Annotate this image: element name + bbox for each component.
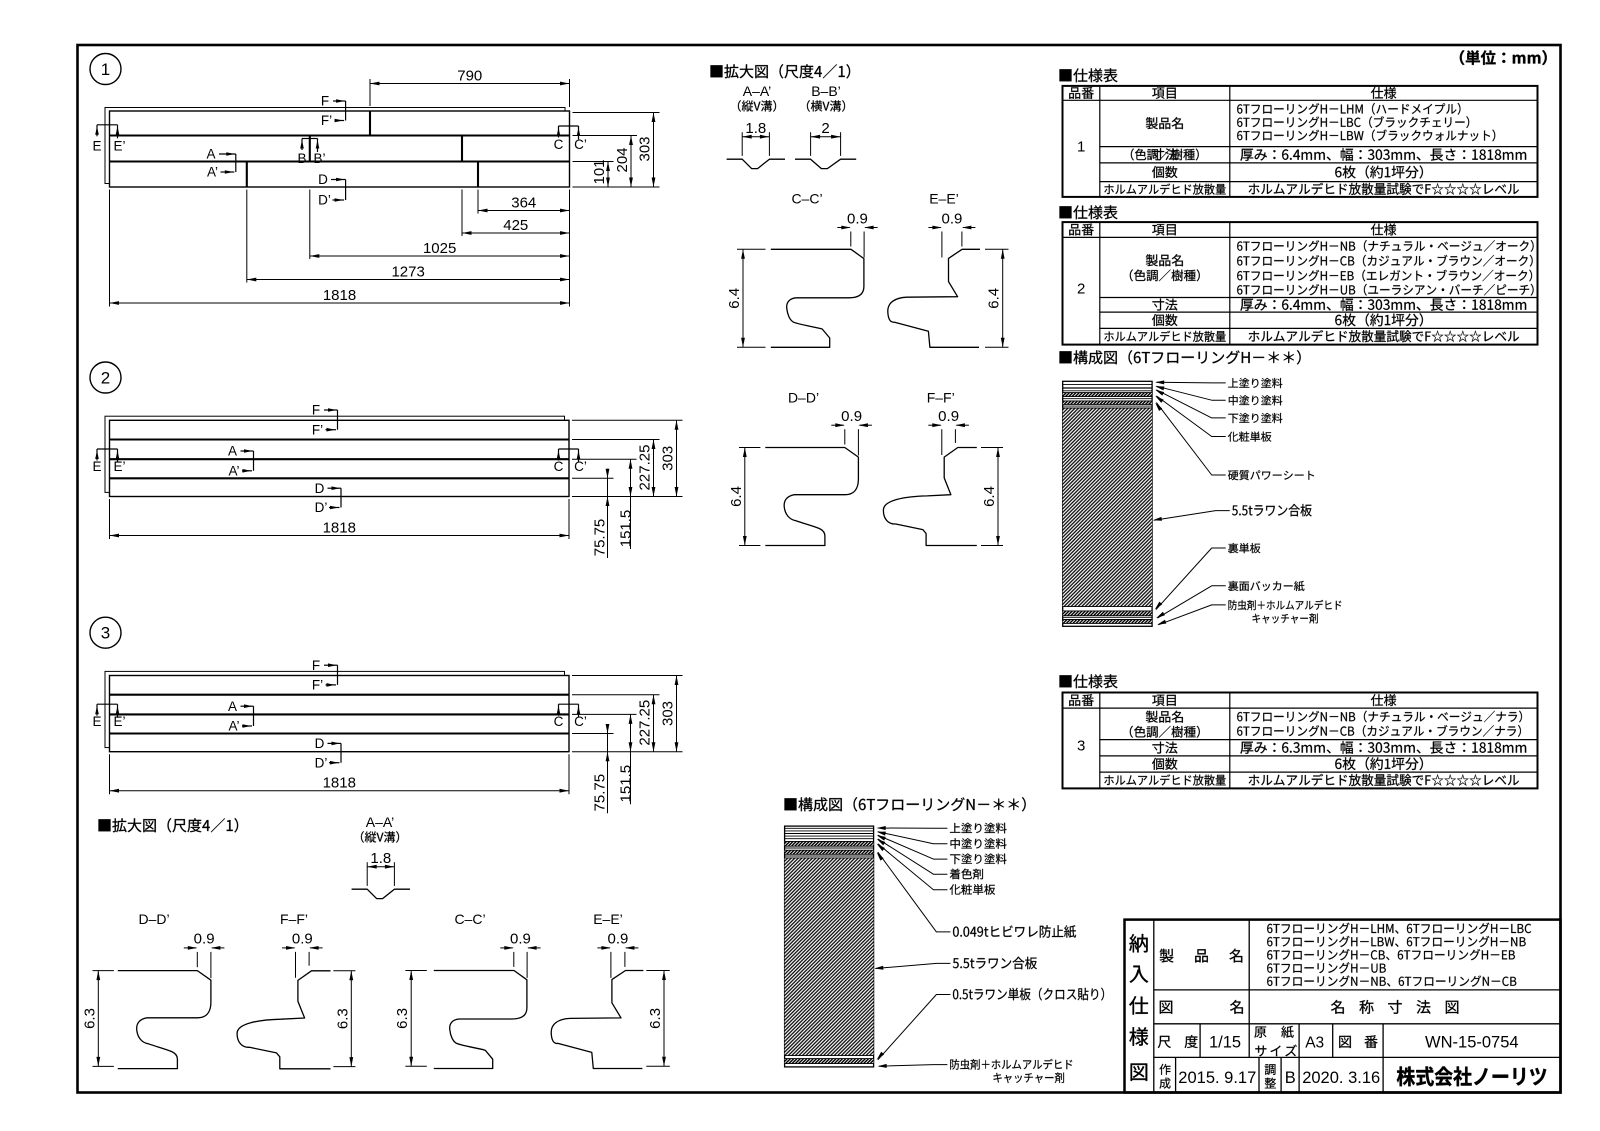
view number circle 2: [90, 362, 121, 393]
svg-text:1818: 1818: [323, 519, 356, 536]
spec table 1 grid: [1063, 86, 1538, 197]
svg-text:C’: C’: [574, 459, 587, 474]
composition N plywood hatch: [785, 858, 874, 1056]
svg-text:0.9: 0.9: [938, 408, 959, 425]
profile section D-D mid: [765, 448, 858, 546]
svg-text:E–E’: E–E’: [593, 911, 623, 927]
title block drawing title: [1331, 1000, 1458, 1014]
svg-text:1025: 1025: [423, 240, 456, 257]
svg-text:6.4: 6.4: [726, 288, 743, 309]
panel 2 row line 2: [110, 458, 570, 460]
svg-text:F’: F’: [321, 113, 332, 128]
svg-text:1: 1: [1077, 138, 1085, 155]
composition H insecticide band: [1063, 620, 1152, 624]
composition N decorative veneer band: [785, 841, 874, 846]
panel 3 row line 1: [110, 694, 570, 696]
panel 2 backing sheet outline: [105, 416, 565, 492]
dim 6.4 of E-E top: [985, 248, 1009, 250]
dim 1818 view2: [110, 535, 570, 537]
title block bottom row cells: [1175, 1057, 1177, 1092]
dim 227.25 view3: [653, 695, 655, 752]
svg-text:2020. 3.16: 2020. 3.16: [1302, 1069, 1380, 1087]
section marker E-E view3: [97, 703, 118, 705]
profile section F-F bottom: [237, 971, 330, 1069]
section marker B-B view1: [302, 138, 318, 140]
spec table 3 grid: [1063, 693, 1538, 789]
svg-text:A’: A’: [207, 165, 218, 180]
svg-text:C–C’: C–C’: [454, 911, 485, 927]
dim 6.3 of E-E bottom: [646, 970, 670, 972]
dim 6.4 of D-D mid: [739, 447, 760, 449]
composition H back veneer band: [1063, 611, 1152, 616]
panel 1 joint top row: [369, 111, 371, 136]
spec table 3 dimensions row: [1152, 742, 1177, 754]
panel 1 outline: [110, 111, 570, 187]
dim 1818 extensions view2: [109, 499, 111, 539]
svg-text:6.4: 6.4: [728, 486, 745, 507]
panel 3 outline: [110, 676, 570, 752]
dim 425: [462, 232, 570, 234]
dim 303 view2: [676, 420, 678, 496]
dim 303 extensions view1: [573, 112, 660, 114]
title block product name label: [1160, 949, 1243, 963]
title block outer frame: [1125, 920, 1561, 1093]
svg-text:D’: D’: [315, 500, 328, 515]
title block label column line: [1248, 920, 1250, 1058]
profile section C-C bottom: [434, 971, 527, 1069]
top enlarged view title: [711, 64, 851, 78]
svg-text:E’: E’: [113, 459, 125, 474]
label N colorant: [950, 869, 983, 880]
svg-text:151.5: 151.5: [618, 765, 635, 803]
dim 75.75 view2: [607, 469, 609, 558]
label N bottom coat: [950, 854, 1006, 865]
svg-text:B: B: [1285, 1069, 1296, 1087]
label N lauan plywood 5.5t: [953, 957, 1037, 969]
svg-text:227.25: 227.25: [637, 445, 654, 491]
svg-text:C: C: [554, 459, 564, 474]
composition N line below veneer: [785, 847, 874, 849]
panel 1 backing sheet outline: [105, 108, 565, 184]
svg-text:D: D: [315, 736, 325, 751]
dim 6.4 of F-F mid: [981, 447, 1003, 449]
profile section E-E bottom: [551, 971, 643, 1069]
label H middle coat: [1229, 395, 1283, 405]
composition diagram H title: [1060, 350, 1301, 364]
svg-text:6.4: 6.4: [981, 486, 998, 507]
spec table 3 formaldehyde row: [1104, 774, 1225, 785]
panel 1 row line 2: [110, 160, 570, 162]
svg-text:C’: C’: [574, 714, 587, 729]
label N crack prevention paper: [953, 925, 1076, 937]
svg-text:C–C’: C–C’: [791, 191, 822, 207]
view number circle 1: [90, 54, 121, 85]
dim 1025 extension: [309, 190, 311, 260]
spec table 1 product names: [1237, 103, 1460, 115]
company logo Noritz: [1397, 1066, 1546, 1086]
spec table 3 quantity row: [1152, 758, 1177, 770]
panel 3 row line 2: [110, 713, 570, 715]
svg-text:WN-15-0754: WN-15-0754: [1425, 1034, 1519, 1052]
label H top coat: [1228, 378, 1282, 388]
dim 227.25 view2: [653, 440, 655, 497]
dim 303 view1: [653, 113, 655, 188]
composition N lauan veneer band: [785, 1059, 874, 1064]
label H backer paper: [1228, 581, 1304, 591]
svg-text:D–D’: D–D’: [788, 390, 819, 406]
svg-text:1: 1: [101, 60, 110, 79]
dim 75.75 extension view3: [572, 733, 614, 735]
composition N stack body: [785, 826, 874, 1067]
spec table 2 title: [1060, 205, 1118, 219]
svg-text:1.8: 1.8: [745, 120, 766, 137]
svg-text:A’: A’: [228, 719, 239, 734]
panel 2 row line 1: [110, 438, 570, 440]
svg-text:303: 303: [660, 701, 677, 726]
svg-text:E: E: [92, 714, 101, 729]
svg-text:F: F: [312, 658, 320, 673]
view number circle 3: [90, 617, 121, 648]
svg-text:3: 3: [101, 624, 110, 643]
dim 303 extensions view3: [572, 675, 683, 677]
svg-text:E’: E’: [113, 139, 125, 154]
svg-text:D’: D’: [315, 755, 328, 770]
svg-text:E’: E’: [113, 714, 125, 729]
svg-text:B–B’: B–B’: [811, 83, 841, 99]
svg-text:A’: A’: [228, 463, 239, 478]
spec table 1 formaldehyde row: [1104, 184, 1225, 195]
dim 790: [370, 83, 570, 85]
dim 151.5 extension view3: [572, 713, 637, 715]
label H hard power sheet: [1228, 470, 1314, 480]
panel 1 joint mid row b: [461, 136, 463, 162]
svg-text:D’: D’: [318, 193, 331, 208]
dim 204: [630, 136, 632, 188]
svg-text:0.9: 0.9: [941, 210, 962, 227]
dim 1273: [247, 279, 570, 281]
svg-text:0.9: 0.9: [292, 931, 313, 948]
composition H backer paper line: [1063, 616, 1152, 618]
section marker E-E view2: [97, 448, 118, 450]
svg-text:151.5: 151.5: [618, 510, 635, 548]
spec table 2 dimensions row: [1152, 299, 1177, 311]
spec table 2 grid: [1063, 222, 1538, 345]
dim 1818 extensions view3: [109, 754, 111, 794]
dim 1818 extensions view1: [109, 190, 111, 307]
section marker C-C view1: [559, 125, 579, 127]
dim 1818 view1: [110, 302, 570, 304]
dim 364: [478, 210, 570, 212]
label N insecticide: [950, 1059, 1072, 1070]
dim 151.5 view2: [630, 459, 632, 549]
svg-text:0.9: 0.9: [510, 931, 531, 948]
label H bottom coat: [1228, 413, 1282, 423]
composition H paint layer lines: [1063, 384, 1152, 386]
title block zu-name label: [1160, 1000, 1243, 1014]
panel 1 joint bottom row a: [246, 162, 248, 188]
svg-text:C’: C’: [574, 137, 587, 152]
composition H plywood hatch: [1063, 408, 1152, 607]
dim 425 extension: [461, 190, 463, 237]
spec table 3 header texts: [1069, 694, 1094, 706]
label N top coat: [950, 823, 1007, 834]
svg-text:3: 3: [1077, 737, 1085, 754]
svg-text:303: 303: [637, 136, 654, 161]
label H insecticide: [1228, 600, 1341, 610]
panel 3 row line 3: [110, 732, 570, 734]
dim 227.25 extension view2: [572, 439, 660, 441]
svg-text:C: C: [554, 137, 564, 152]
svg-text:B’: B’: [313, 151, 325, 166]
svg-text:227.25: 227.25: [637, 700, 654, 746]
svg-text:1.8: 1.8: [370, 850, 391, 867]
composition H power sheet band: [1063, 401, 1152, 405]
svg-text:A–A’: A–A’: [743, 83, 772, 99]
svg-text:E: E: [92, 459, 101, 474]
dim 6.3 of F-F bottom: [333, 970, 355, 972]
dim 101 extension: [573, 161, 614, 163]
panel 2 outline: [110, 420, 570, 496]
svg-text:6.3: 6.3: [334, 1008, 351, 1029]
svg-text:B: B: [297, 151, 306, 166]
dim 151.5 extension view2: [572, 458, 637, 460]
svg-text:1/15: 1/15: [1209, 1034, 1241, 1052]
svg-text:F–F’: F–F’: [280, 911, 308, 927]
spec table 2 product name label: [1146, 254, 1183, 266]
svg-text:D: D: [315, 481, 325, 496]
svg-text:6.3: 6.3: [394, 1008, 411, 1029]
composition N paint layer lines: [785, 827, 874, 829]
svg-text:6.3: 6.3: [81, 1008, 98, 1029]
spec table 3 product name label: [1146, 711, 1183, 723]
label H lauan plywood 5.5t: [1232, 504, 1312, 516]
dim 790 extension lines: [369, 79, 371, 106]
spec table 2 product names: [1237, 240, 1533, 252]
composition H line below power sheet: [1063, 405, 1152, 407]
dim 6.3 of C-C bottom: [405, 970, 426, 972]
spec table 2 formaldehyde row: [1104, 331, 1225, 342]
dim 6.4 of C-C top: [737, 248, 766, 250]
composition N crack prevention band: [785, 850, 874, 854]
svg-text:2: 2: [101, 369, 110, 388]
panel 1 joint mid row a: [309, 136, 311, 162]
label H back veneer: [1228, 543, 1260, 553]
dim 204 extension: [573, 135, 638, 137]
svg-text:2: 2: [821, 120, 829, 137]
dim 151.5 view3: [630, 714, 632, 804]
panel 2 row line 3: [110, 477, 570, 479]
svg-text:2: 2: [1077, 280, 1085, 297]
label H decorative veneer: [1228, 432, 1271, 442]
dim 1273 extension: [246, 190, 248, 283]
svg-text:F’: F’: [312, 422, 323, 437]
svg-text:C: C: [554, 714, 564, 729]
dim 303 view3: [676, 676, 678, 752]
dim 303 extensions view2: [572, 419, 683, 421]
section marker C-C view3: [559, 703, 579, 705]
svg-text:E–E’: E–E’: [929, 191, 959, 207]
spec table 2 quantity row: [1152, 314, 1177, 326]
profile section D-D bottom: [118, 971, 211, 1069]
title block scale row cells: [1199, 1024, 1201, 1058]
svg-text:790: 790: [457, 67, 482, 84]
svg-text:6.3: 6.3: [647, 1008, 664, 1029]
dim 1025: [310, 255, 570, 257]
svg-text:0.9: 0.9: [194, 931, 215, 948]
dim 101: [607, 162, 609, 188]
svg-text:1273: 1273: [391, 263, 424, 280]
panel 1 joint bottom row b: [477, 162, 479, 188]
svg-text:A3: A3: [1305, 1035, 1324, 1052]
svg-text:75.75: 75.75: [592, 774, 609, 812]
dim 75.75 extension view2: [572, 477, 614, 479]
title block delivery spec column: [1153, 920, 1155, 1093]
svg-text:0.9: 0.9: [841, 408, 862, 425]
dim 6.3 of D-D bottom: [93, 970, 114, 972]
spec table 1 product name label: [1146, 117, 1183, 129]
svg-text:425: 425: [503, 217, 528, 234]
spec table 1 quantity row: [1152, 166, 1177, 178]
unit note (tanni mm): [1460, 50, 1547, 65]
svg-text:1818: 1818: [323, 775, 356, 792]
svg-text:A: A: [206, 147, 215, 162]
composition H stack body: [1063, 381, 1152, 626]
profile section F-F mid: [883, 448, 976, 546]
dim 364 extensions: [477, 190, 479, 214]
title block product row line: [1154, 989, 1561, 991]
dim 227.25 extension view3: [572, 694, 660, 696]
svg-text:F–F’: F–F’: [927, 390, 955, 406]
svg-text:F’: F’: [312, 678, 323, 693]
section marker C-C view2: [559, 448, 579, 450]
spec table 1 header texts: [1069, 87, 1094, 99]
title block scale row line: [1154, 1056, 1561, 1058]
label N decorative veneer: [950, 884, 995, 895]
spec table 3 product names: [1237, 711, 1522, 723]
svg-text:E: E: [92, 139, 101, 154]
svg-text:204: 204: [614, 147, 631, 172]
dim 1818 view3: [110, 790, 570, 792]
spec table 3 title: [1060, 674, 1118, 688]
composition N line below crack band: [785, 855, 874, 857]
svg-text:A: A: [228, 699, 237, 714]
section marker E-E view1: [97, 124, 118, 126]
svg-text:F: F: [312, 403, 320, 418]
svg-text:0.9: 0.9: [847, 210, 868, 227]
bottom enlarged view title: [99, 818, 239, 832]
label N middle coat: [951, 838, 1007, 849]
composition H decorative veneer band: [1063, 393, 1152, 397]
svg-text:A–A’: A–A’: [366, 814, 395, 830]
svg-text:1818: 1818: [323, 287, 356, 304]
title block product list: [1267, 923, 1531, 934]
svg-text:75.75: 75.75: [592, 519, 609, 557]
svg-text:0.9: 0.9: [607, 931, 628, 948]
panel 3 backing sheet outline: [105, 671, 565, 747]
svg-text:101: 101: [591, 159, 608, 184]
composition diagram N title: [785, 797, 1026, 811]
composition H line below veneer: [1063, 398, 1152, 400]
label N lauan veneer 0.5t: [953, 988, 1104, 1001]
spec table 1 title: [1060, 68, 1118, 82]
title block zu-name row line: [1154, 1023, 1561, 1025]
svg-text:D–D’: D–D’: [138, 911, 169, 927]
svg-text:2015. 9.17: 2015. 9.17: [1178, 1069, 1256, 1087]
svg-text:364: 364: [511, 194, 536, 211]
profile section C-C top: [771, 249, 864, 347]
svg-text:D: D: [318, 172, 328, 187]
svg-text:303: 303: [660, 446, 677, 471]
svg-text:F: F: [321, 94, 329, 109]
svg-text:A: A: [228, 444, 237, 459]
svg-text:6.4: 6.4: [986, 288, 1003, 309]
panel 1 row line 1: [110, 134, 570, 136]
spec table 2 header texts: [1069, 224, 1094, 236]
spec table 1 dimensions row: [1240, 148, 1526, 161]
dim 75.75 view3: [607, 724, 609, 813]
profile section E-E top: [888, 249, 980, 347]
